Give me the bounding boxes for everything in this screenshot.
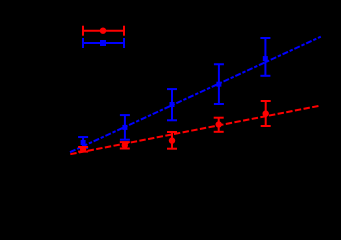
blue point 4 error bar [214, 64, 224, 104]
red point 5 circle marker [263, 110, 269, 116]
blue point 4 square marker [216, 82, 221, 87]
blue point 1 error bar [78, 137, 88, 148]
red point 4 circle marker [216, 121, 222, 127]
legend red errorbar sample [83, 26, 124, 36]
blue fit line (dashed) [70, 37, 321, 153]
blue point 1 square marker [81, 140, 86, 145]
red point 5 error bar [261, 101, 271, 126]
blue point 3 error bar [167, 89, 177, 120]
red point 1 error bar [78, 147, 88, 152]
red fit line (dashed) [70, 106, 320, 155]
red point 4 error bar [214, 118, 224, 132]
blue point 5 error bar [260, 38, 270, 76]
legend blue errorbar sample [83, 38, 124, 48]
red point 3 circle marker [169, 137, 175, 143]
blue point 2 error bar [120, 115, 130, 140]
legend blue square marker [100, 40, 106, 46]
red point 2 error bar [120, 142, 130, 148]
blue point 2 square marker [122, 125, 127, 130]
blue point 5 square marker [263, 56, 268, 61]
legend red circle marker [100, 28, 106, 34]
red point 3 error bar [167, 132, 177, 149]
red point 2 circle marker [122, 142, 128, 148]
red point 1 circle marker [80, 146, 86, 152]
blue point 3 square marker [170, 102, 175, 107]
